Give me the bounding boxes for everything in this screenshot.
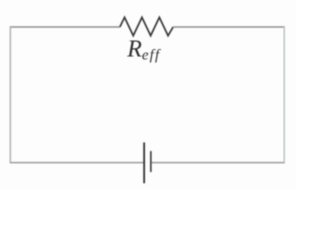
wire top-left segment xyxy=(10,26,120,28)
svg-text:Reff: Reff xyxy=(126,37,161,64)
resistor Reff xyxy=(120,17,173,35)
battery cell: short plate (negative) xyxy=(150,151,152,172)
wire top-right segment xyxy=(173,26,284,28)
wire bottom-right segment xyxy=(151,162,284,164)
wire right vertical xyxy=(283,26,285,163)
battery cell: long plate (positive) xyxy=(143,142,145,183)
wire bottom-left segment xyxy=(10,162,144,164)
wire left vertical xyxy=(9,26,11,163)
